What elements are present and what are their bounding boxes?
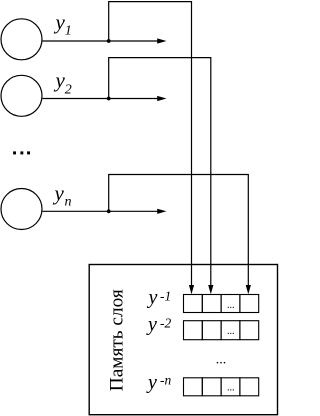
svg-text:-2: -2 <box>160 315 171 330</box>
svg-text:n: n <box>65 194 72 209</box>
svg-text:y: y <box>54 68 66 92</box>
svg-text:y: y <box>146 314 157 336</box>
svg-text:2: 2 <box>65 83 72 98</box>
svg-text:y: y <box>146 371 157 393</box>
svg-text:1: 1 <box>65 23 72 38</box>
svg-text:-1: -1 <box>160 288 171 303</box>
svg-text:...: ... <box>227 326 235 337</box>
svg-text:y: y <box>147 287 158 309</box>
svg-text:y: y <box>53 181 65 205</box>
svg-text:-n: -n <box>160 373 171 388</box>
svg-text:...: ... <box>227 300 235 311</box>
svg-text:y: y <box>54 10 66 34</box>
svg-text:...: ... <box>216 353 227 368</box>
svg-text:...: ... <box>227 382 235 393</box>
svg-text:Память слоя: Память слоя <box>106 289 127 391</box>
